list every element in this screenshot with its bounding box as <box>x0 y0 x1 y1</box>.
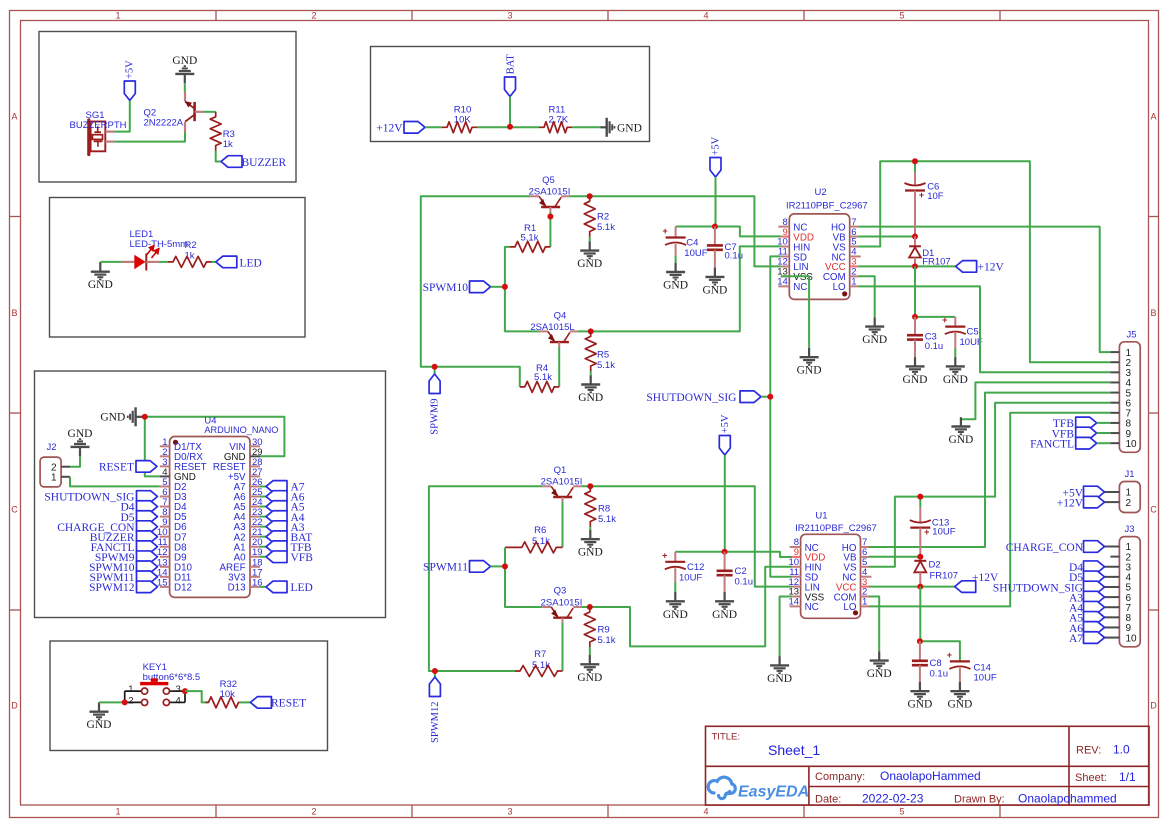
wire R32 to RESET flag <box>239 701 251 703</box>
company row <box>815 769 1136 784</box>
net flag SPWM10 <box>423 281 505 294</box>
wire U1 VB to C13 bottom <box>869 556 920 558</box>
svg-text:A7: A7 <box>1069 633 1083 645</box>
svg-text:Company:: Company: <box>815 771 865 783</box>
wire U1 VSS to GND <box>780 597 793 657</box>
svg-text:GND: GND <box>578 392 603 404</box>
svg-text:GND: GND <box>172 55 197 67</box>
svg-text:D12: D12 <box>174 582 192 593</box>
svg-text:A: A <box>1150 112 1156 122</box>
wire Q1 collector rail to U1 LIN <box>581 486 792 586</box>
svg-text:4: 4 <box>703 11 708 21</box>
wire Q5 base to R1 <box>549 212 551 247</box>
svg-text:NC: NC <box>805 602 819 613</box>
svg-text:SPWM11: SPWM11 <box>423 562 468 574</box>
svg-text:15: 15 <box>157 577 168 588</box>
svg-text:+12V: +12V <box>376 123 403 135</box>
svg-text:C2: C2 <box>735 566 747 577</box>
junction node R9 top <box>587 604 593 610</box>
svg-text:D13: D13 <box>228 582 247 593</box>
resistor R10 10K <box>442 105 477 133</box>
svg-text:5: 5 <box>899 11 904 21</box>
svg-text:+5V: +5V <box>720 414 731 433</box>
svg-text:GND: GND <box>663 609 688 621</box>
wire R11 to GND <box>572 126 600 128</box>
svg-text:SPWM12: SPWM12 <box>89 582 135 594</box>
junction node SPWM9 <box>432 364 438 370</box>
J3 net flags <box>993 541 1105 645</box>
resistor R5 5.1k <box>585 331 615 371</box>
arduino left net flags <box>44 491 157 594</box>
ground GND (C12) <box>674 592 676 601</box>
svg-text:LED: LED <box>291 582 313 594</box>
capacitor C2 0.1u <box>717 552 753 592</box>
svg-text:J2: J2 <box>47 442 57 453</box>
svg-text:U1: U1 <box>815 511 827 522</box>
resistor R8 5.1k <box>585 486 616 526</box>
ic U1 IR2110PBF_C2967 <box>789 511 877 619</box>
resistor R2 5.1k (driver) <box>584 196 615 236</box>
wire J5 pin4 to GND <box>961 382 1111 419</box>
ground GND (R8) <box>578 527 603 559</box>
svg-text:IR2110PBF_C2967: IR2110PBF_C2967 <box>795 523 877 534</box>
wire Q2 base to R3 <box>204 111 216 113</box>
svg-text:GND: GND <box>100 412 125 424</box>
svg-text:D: D <box>1150 701 1157 711</box>
wire U1 COM to GND <box>869 597 879 652</box>
wire U2 VSS to GND <box>781 276 809 348</box>
connector J5 <box>1110 330 1140 453</box>
rev text <box>1076 743 1130 757</box>
svg-text:FANCTL: FANCTL <box>1030 439 1074 451</box>
wire key to R32 <box>185 691 208 702</box>
svg-text:GND: GND <box>663 280 688 292</box>
svg-text:+: + <box>942 315 947 325</box>
svg-text:REV:: REV: <box>1076 745 1101 757</box>
led LED1 LED-TH-5mm <box>121 229 188 271</box>
svg-text:5.1k: 5.1k <box>521 233 539 244</box>
svg-text:GND: GND <box>87 719 112 731</box>
wire GND to LED anode <box>100 261 121 263</box>
power flag SPWM12 <box>429 671 441 743</box>
resistor R1 5.1k <box>510 223 550 252</box>
svg-text:2.7K: 2.7K <box>549 115 569 126</box>
svg-text:3: 3 <box>507 807 512 817</box>
svg-text:Onaolapohammed: Onaolapohammed <box>1018 792 1117 806</box>
junction node key left <box>122 699 128 705</box>
transistor Q4 2SA1015L <box>530 310 578 347</box>
capacitor C14 10UF <box>947 650 997 684</box>
ground GND (C7) <box>714 268 716 277</box>
easyeda logo <box>708 777 809 800</box>
svg-text:VFB: VFB <box>291 552 314 564</box>
svg-text:C: C <box>11 505 18 515</box>
section box led indicator <box>50 198 306 338</box>
svg-text:GND: GND <box>577 258 602 270</box>
svg-text:2022-02-23: 2022-02-23 <box>862 792 924 806</box>
svg-text:+5V: +5V <box>124 60 135 79</box>
wire GND to VIN-side and pin4 <box>145 417 285 477</box>
svg-text:10: 10 <box>1126 439 1138 450</box>
junction node C3 top <box>912 314 918 320</box>
junction node R8 top <box>587 483 593 489</box>
wire R3 to BUZZER flag <box>216 151 221 162</box>
svg-text:D: D <box>11 701 18 711</box>
svg-text:14: 14 <box>777 277 788 288</box>
power flag +5V (upper) <box>710 136 722 177</box>
ground GND (R2) <box>577 237 602 271</box>
svg-text:5.1k: 5.1k <box>597 360 615 371</box>
svg-text:GND: GND <box>867 668 892 680</box>
svg-text:4: 4 <box>176 696 181 707</box>
svg-text:GND: GND <box>903 374 928 386</box>
ground GND (key box) <box>87 702 112 731</box>
wire Q3 base to R7 <box>562 623 564 671</box>
net flag +12V (U2) <box>956 261 1005 274</box>
svg-text:GND: GND <box>702 284 727 296</box>
wire VCC down to C8 C14 <box>920 587 960 662</box>
svg-text:OnaolapoHammed: OnaolapoHammed <box>880 769 981 783</box>
svg-text:R8: R8 <box>598 504 610 515</box>
date row <box>815 792 1117 806</box>
resistor R6 5.1k <box>505 525 563 553</box>
svg-text:+: + <box>947 650 952 660</box>
net flag +12V (battery) <box>376 122 425 135</box>
ic U4 ARDUINO_NANO <box>157 416 279 598</box>
transistor Q3 2SA1015I <box>541 586 583 623</box>
capacitor C12 10UF <box>662 550 704 583</box>
svg-text:SPWM12: SPWM12 <box>430 702 441 743</box>
svg-text:10UF: 10UF <box>679 573 702 584</box>
svg-text:BAT: BAT <box>506 54 517 74</box>
ground GND (buzzer box) <box>172 55 197 83</box>
wire GND to key pins 1-2 <box>99 701 125 703</box>
junction node key right <box>182 688 188 694</box>
svg-text:2: 2 <box>311 807 316 817</box>
svg-text:+: + <box>919 190 924 200</box>
svg-text:4: 4 <box>703 807 708 817</box>
key KEY1 button6*6*8.5 <box>125 662 200 707</box>
junction node C6 bottom <box>912 234 918 240</box>
wire Q3 collector to U1 HIN <box>581 567 792 647</box>
resistor R32 10k <box>206 679 242 708</box>
svg-text:GND: GND <box>943 374 968 386</box>
wire U1 LO to J5 pin7 <box>869 413 1110 607</box>
svg-text:Sheet_1: Sheet_1 <box>768 742 820 758</box>
svg-text:3: 3 <box>176 684 181 695</box>
net flag +12V (U1) <box>955 572 999 592</box>
svg-text:BUZZERPTH: BUZZERPTH <box>70 120 127 131</box>
ground GND (C14) <box>959 682 961 691</box>
wire SPWM12 net / Q1 emitter rail <box>429 486 542 671</box>
svg-text:1: 1 <box>115 807 120 817</box>
wire U2 VS to C6 top rail <box>858 161 1110 362</box>
junction node +5V rail <box>712 224 718 230</box>
svg-text:GND: GND <box>797 365 822 377</box>
svg-text:+: + <box>662 226 667 236</box>
svg-text:C12: C12 <box>687 562 704 573</box>
capacitor C6 10F <box>905 161 944 236</box>
svg-text:GND: GND <box>712 609 737 621</box>
wire U2 VB to C6 bottom <box>858 236 915 238</box>
wire C5 to GND <box>954 348 956 357</box>
svg-text:1: 1 <box>51 473 57 484</box>
junction node Q5 base <box>547 214 553 220</box>
svg-text:0.1u: 0.1u <box>930 669 949 680</box>
power flag +5V (lower) <box>719 414 731 455</box>
svg-text:J3: J3 <box>1125 524 1135 535</box>
wire +5V to VDD rail <box>676 177 781 236</box>
capacitor C4 10UF <box>662 226 707 259</box>
svg-text:10UF: 10UF <box>684 248 707 259</box>
net flag FANCTL <box>1030 437 1110 450</box>
title block <box>706 726 1150 805</box>
junction node C6 top <box>912 158 918 164</box>
power flag +5V (buzzer) <box>124 60 135 101</box>
svg-text:5: 5 <box>899 807 904 817</box>
ground GND (R9) <box>577 647 602 684</box>
svg-text:FR107: FR107 <box>930 571 959 582</box>
svg-text:IR2110PBF_C2967: IR2110PBF_C2967 <box>786 201 868 212</box>
svg-text:5.1k: 5.1k <box>597 222 615 233</box>
frame row letters <box>11 112 1157 711</box>
transistor Q5 2SA1015I <box>529 175 571 212</box>
svg-text:+: + <box>662 550 667 560</box>
wire J2 pin1 to arduino D2 <box>70 477 160 487</box>
wire R10 to center node <box>477 126 539 128</box>
net flag RESET (arduino) <box>99 461 157 474</box>
svg-text:Sheet:: Sheet: <box>1075 772 1107 784</box>
svg-text:R5: R5 <box>597 350 609 361</box>
svg-text:NC: NC <box>793 282 807 293</box>
transistor Q1 2SA1015I <box>541 465 583 502</box>
svg-text:LED: LED <box>240 257 262 269</box>
svg-text:3: 3 <box>507 11 512 21</box>
buzzer SG1 BUZZERPTH <box>70 110 127 155</box>
section box battery sense <box>371 47 650 142</box>
svg-text:A: A <box>11 112 17 122</box>
svg-text:R6: R6 <box>534 525 546 536</box>
svg-text:CHARGE_CON: CHARGE_CON <box>1006 542 1084 554</box>
title text <box>712 732 821 759</box>
svg-text:10UF: 10UF <box>974 673 997 684</box>
capacitor C3 0.1u <box>907 317 943 357</box>
junction node SHUTDOWN_SIG <box>767 394 773 400</box>
svg-text:BUZZER: BUZZER <box>242 157 287 169</box>
junction node +5V lower rail <box>722 549 728 555</box>
wire R6 to SPWM11 rail <box>505 547 542 607</box>
junction node battery divider <box>507 124 513 130</box>
svg-text:C5: C5 <box>967 327 979 338</box>
wire U2 LO to J5 pin3 <box>858 286 1110 372</box>
svg-text:R9: R9 <box>598 625 610 636</box>
wire U1 VS to C13 rail and J5 pin6 <box>869 403 1110 567</box>
svg-text:0.1u: 0.1u <box>925 341 944 352</box>
wire SPWM9 net / Q5 emitter rail <box>421 196 530 387</box>
ground GND (U2 COM) <box>874 317 876 326</box>
ground GND (C4) <box>663 256 688 292</box>
wire U1 VCC to +12V <box>869 586 955 588</box>
svg-text:GND: GND <box>947 699 972 711</box>
wire U1 HO to J5 pin5 <box>869 393 1110 547</box>
ground GND (U1 VSS) <box>778 656 780 665</box>
net flag SHUTDOWN_SIG (driver) <box>646 391 770 404</box>
svg-text:1: 1 <box>851 277 856 288</box>
svg-text:SHUTDOWN_SIG: SHUTDOWN_SIG <box>646 392 736 404</box>
svg-text:RESET: RESET <box>271 698 306 710</box>
svg-text:5.1k: 5.1k <box>598 514 616 525</box>
svg-text:GND: GND <box>578 547 603 559</box>
diode D1 FR107 <box>909 237 951 268</box>
ground GND (battery box) <box>601 126 607 128</box>
ground GND (led box) <box>88 262 113 291</box>
wire R2 to LED flag <box>212 261 216 263</box>
wire U2 VCC to +12V <box>858 265 955 267</box>
svg-text:GND: GND <box>862 334 887 346</box>
net flag VFB <box>1052 427 1111 440</box>
svg-text:GND: GND <box>617 123 642 135</box>
capacitor C5 10UF <box>942 315 983 348</box>
ground GND (C3) <box>914 357 916 366</box>
svg-text:Q3: Q3 <box>554 586 567 597</box>
power flag SPWM9 <box>429 367 441 435</box>
ground GND (C5) <box>954 357 956 366</box>
svg-text:D2: D2 <box>929 560 941 571</box>
transistor Q2 2N2222A <box>144 92 205 132</box>
power flag BAT <box>505 54 517 97</box>
wire U2 COM to GND <box>858 276 875 317</box>
arduino right net flags <box>260 481 313 594</box>
svg-text:2N2222A: 2N2222A <box>144 118 184 129</box>
svg-text:R2: R2 <box>597 212 609 223</box>
svg-text:C4: C4 <box>686 237 698 248</box>
svg-text:GND: GND <box>907 699 932 711</box>
resistor R2 1k (led) <box>168 240 212 267</box>
svg-text:2: 2 <box>128 696 133 707</box>
svg-text:2SA1015L: 2SA1015L <box>530 322 574 333</box>
junction node U2 VCC <box>912 263 918 269</box>
svg-text:R2: R2 <box>185 240 197 251</box>
svg-text:J1: J1 <box>1125 469 1135 480</box>
ground GND (arduino left) <box>68 428 93 456</box>
wire +12V to R10 <box>425 126 442 128</box>
resistor R9 5.1k <box>584 607 615 647</box>
ground GND (C8) <box>919 682 921 691</box>
svg-text:C8: C8 <box>930 658 942 669</box>
svg-text:Q1: Q1 <box>554 465 567 476</box>
junction node R2 top <box>587 193 593 199</box>
svg-text:Drawn By:: Drawn By: <box>954 794 1005 806</box>
svg-text:1k: 1k <box>223 139 233 150</box>
svg-text:2: 2 <box>1126 498 1132 509</box>
wire BAT stem <box>509 97 511 127</box>
section box buzzer driver <box>39 32 296 183</box>
wire VCC down to C3 C5 <box>915 266 955 317</box>
junction node U1 VCC <box>917 584 923 590</box>
ground GND (U1 COM) <box>878 651 880 660</box>
ground GND (arduino top) <box>100 407 144 426</box>
wire R1 to SPWM10 rail <box>505 247 539 332</box>
svg-text:GND: GND <box>68 428 93 440</box>
svg-text:Date:: Date: <box>815 794 841 806</box>
svg-text:0.1u: 0.1u <box>725 251 744 262</box>
svg-text:+12V: +12V <box>1057 497 1084 509</box>
svg-text:10: 10 <box>1126 633 1138 644</box>
junction node SPWM11 <box>502 563 508 569</box>
svg-text:SPWM9: SPWM9 <box>430 399 441 435</box>
svg-text:1: 1 <box>115 11 120 21</box>
svg-text:2: 2 <box>311 11 316 21</box>
svg-text:TITLE:: TITLE: <box>712 732 741 743</box>
section box reset key <box>50 641 328 751</box>
wire Q4 collector rail to U2 HIN <box>578 246 781 331</box>
svg-text:14: 14 <box>789 597 800 608</box>
wire GND to Q2 emitter <box>184 83 186 92</box>
wire Q4 base to R4 <box>558 347 560 387</box>
svg-text:GND: GND <box>767 673 792 685</box>
svg-text:GND: GND <box>577 672 602 684</box>
net flag +12V (J1) <box>1057 496 1105 509</box>
wire SHUTDOWN_SIG to U2 SD and U1 SD <box>770 256 792 576</box>
svg-text:B: B <box>1150 308 1156 318</box>
junction node C13 top <box>917 494 923 500</box>
svg-text:R7: R7 <box>534 649 546 660</box>
svg-text:B: B <box>11 308 17 318</box>
ground GND (U2 VSS) <box>808 348 810 357</box>
resistor R7 5.1k <box>515 649 563 677</box>
svg-text:SPWM10: SPWM10 <box>423 282 469 294</box>
wire buzzer pin2 to Q2 collector <box>115 132 186 142</box>
resistor R11 2.7K <box>539 105 572 133</box>
diode D2 FR107 <box>914 560 958 587</box>
wire Q5 collector rail to U2 LIN <box>569 196 781 266</box>
wire C12 to GND <box>674 582 676 592</box>
net flag +5V (J1) <box>1062 486 1104 499</box>
svg-text:+12V: +12V <box>978 262 1005 274</box>
net flag BUZZER <box>221 156 287 169</box>
svg-text:10F: 10F <box>927 191 944 202</box>
section box arduino <box>35 371 386 618</box>
ground GND (C2) <box>723 592 725 601</box>
svg-text:Q5: Q5 <box>542 175 555 186</box>
svg-text:+5V: +5V <box>711 136 722 155</box>
svg-text:Q4: Q4 <box>554 310 567 321</box>
connector J3 <box>1105 524 1141 647</box>
svg-text:U2: U2 <box>815 187 827 198</box>
svg-text:GND: GND <box>88 279 113 291</box>
resistor R3 1k <box>210 112 235 151</box>
wire +5V to buzzer pin1 <box>115 101 130 132</box>
net flag LED <box>216 256 262 269</box>
junction node arduino GND <box>142 414 148 420</box>
svg-text:ARDUINO_NANO: ARDUINO_NANO <box>204 425 278 435</box>
junction node R5 top <box>588 328 594 334</box>
capacitor C7 0.1u <box>707 227 743 268</box>
wire U2 HO to J5 pin1 <box>858 227 1110 353</box>
svg-text:0.1u: 0.1u <box>735 577 754 588</box>
svg-text:C: C <box>1150 505 1157 515</box>
svg-text:RESET: RESET <box>99 462 134 474</box>
capacitor C13 10UF <box>910 497 956 557</box>
capacitor C8 0.1u <box>912 641 948 682</box>
connector J2 <box>40 442 70 487</box>
svg-text:10UF: 10UF <box>932 527 955 538</box>
svg-text:+: + <box>924 527 929 537</box>
ground GND (R5) <box>578 371 603 404</box>
svg-text:1: 1 <box>862 597 867 608</box>
junction node C13 bottom <box>917 554 923 560</box>
svg-text:EasyEDA: EasyEDA <box>738 784 809 801</box>
